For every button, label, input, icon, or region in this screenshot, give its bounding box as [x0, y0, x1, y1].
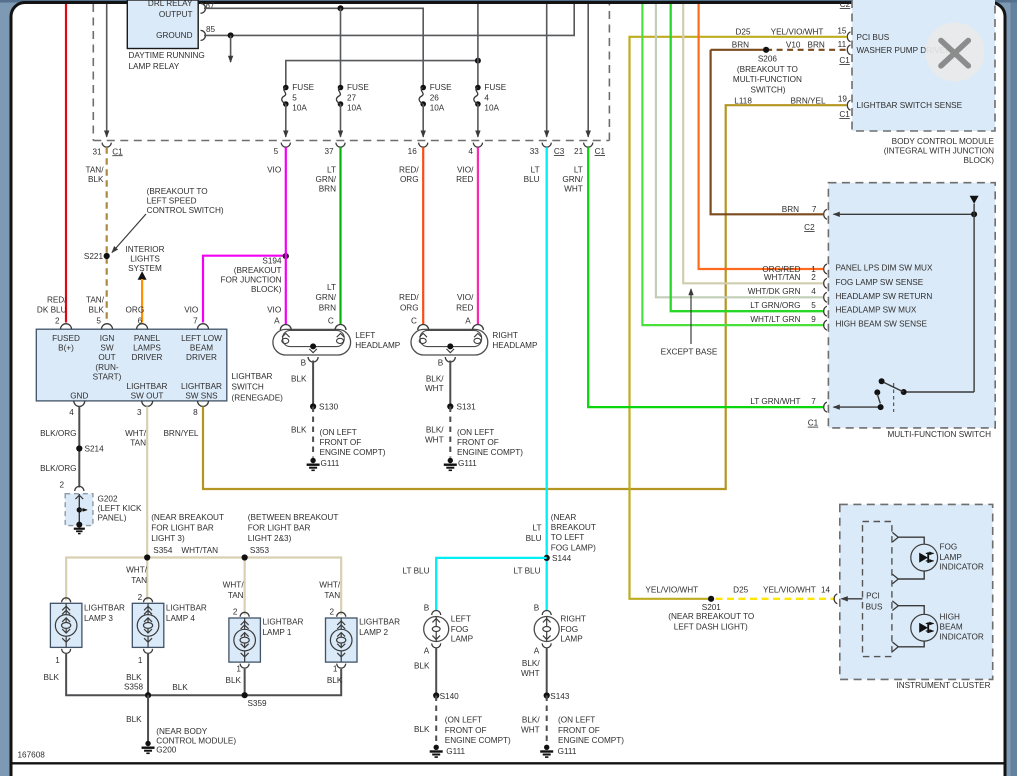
- node S358: [145, 692, 151, 698]
- svg-text:LT: LT: [574, 165, 583, 174]
- svg-text:8: 8: [193, 408, 198, 417]
- lamp LIGHTBAR LAMP 2: [326, 612, 358, 668]
- svg-text:FOG: FOG: [451, 625, 469, 634]
- svg-text:GRN/: GRN/: [316, 175, 337, 184]
- svg-text:RED/: RED/: [399, 293, 419, 302]
- svg-text:BRN/YEL: BRN/YEL: [163, 429, 198, 438]
- svg-text:ORG: ORG: [126, 305, 145, 314]
- svg-text:SWITCH): SWITCH): [750, 86, 785, 95]
- switch S LIGHTBAR SWITCH (RENEGADE): [36, 324, 227, 407]
- node S130: [310, 403, 316, 409]
- svg-text:LEFT SPEED: LEFT SPEED: [147, 197, 197, 206]
- svg-text:BLK/: BLK/: [522, 659, 540, 668]
- svg-text:5: 5: [292, 93, 297, 102]
- svg-text:WHT: WHT: [425, 435, 444, 444]
- svg-text:(NEAR BODY: (NEAR BODY: [156, 727, 207, 736]
- wire TAN/BLK (dashed) pin 31 to lightbar switch pin 5: [106, 147, 108, 322]
- svg-text:1: 1: [138, 656, 143, 665]
- svg-text:BLU: BLU: [526, 534, 542, 543]
- svg-text:S358: S358: [124, 683, 144, 692]
- svg-text:C: C: [328, 317, 334, 326]
- svg-text:2: 2: [811, 273, 816, 282]
- svg-text:S143: S143: [550, 692, 570, 701]
- svg-text:PCI BUS: PCI BUS: [857, 33, 890, 42]
- svg-text:OUTPUT: OUTPUT: [159, 10, 193, 19]
- svg-text:BLK: BLK: [88, 175, 104, 184]
- svg-text:7: 7: [812, 205, 817, 214]
- svg-text:BLOCK): BLOCK): [964, 156, 995, 165]
- wire WHT/TAN bus S354 to S353 and branches: [66, 558, 341, 615]
- ground G111 right headlamp: [444, 458, 457, 471]
- svg-text:YEL/VIO/WHT: YEL/VIO/WHT: [771, 28, 824, 37]
- node S201: [708, 596, 714, 602]
- node S194: [283, 253, 289, 259]
- svg-text:TAN: TAN: [228, 591, 244, 600]
- svg-text:C3: C3: [554, 147, 565, 156]
- svg-text:BLK: BLK: [414, 725, 430, 734]
- svg-text:5: 5: [274, 147, 279, 156]
- svg-text:WHT/: WHT/: [126, 566, 148, 575]
- ground G111 right fog lamp: [540, 745, 553, 758]
- node S214: [76, 445, 82, 451]
- svg-text:LIGHT 2&3): LIGHT 2&3): [248, 534, 292, 543]
- svg-text:A: A: [424, 646, 430, 655]
- svg-text:LIGHTBAR: LIGHTBAR: [84, 604, 125, 613]
- svg-text:WHT/: WHT/: [223, 580, 245, 589]
- svg-text:BLOCK): BLOCK): [251, 285, 282, 294]
- wires PCI BUS to fog lamp indicator: [898, 537, 924, 579]
- svg-text:S354: S354: [153, 546, 173, 555]
- svg-text:DAYTIME RUNNING: DAYTIME RUNNING: [129, 51, 205, 60]
- module MULTI-FUNCTION SWITCH box: [828, 183, 995, 428]
- svg-text:ENGINE COMPT): ENGINE COMPT): [457, 448, 523, 457]
- svg-text:(ON LEFT: (ON LEFT: [445, 716, 482, 725]
- svg-text:GRN/: GRN/: [562, 175, 583, 184]
- svg-text:V10: V10: [786, 41, 801, 50]
- svg-text:PANEL LPS DIM SW MUX: PANEL LPS DIM SW MUX: [836, 264, 933, 273]
- svg-text:BLK/: BLK/: [522, 716, 540, 725]
- ground G202 (LEFT KICK PANEL): [65, 486, 142, 533]
- svg-text:SW OUT: SW OUT: [131, 391, 164, 400]
- svg-text:SW SNS: SW SNS: [185, 391, 218, 400]
- svg-text:A: A: [465, 317, 471, 326]
- svg-text:BLK: BLK: [291, 426, 307, 435]
- svg-text:15: 15: [837, 26, 847, 35]
- svg-text:27: 27: [347, 93, 357, 102]
- svg-text:LEFT: LEFT: [355, 331, 375, 340]
- fuse F4 10A: [474, 83, 507, 137]
- svg-text:LIGHT 3): LIGHT 3): [151, 534, 185, 543]
- close button: [925, 23, 984, 82]
- svg-text:YEL/VIO/WHT: YEL/VIO/WHT: [763, 585, 816, 594]
- svg-text:S194: S194: [262, 257, 282, 266]
- svg-text:G111: G111: [558, 747, 577, 756]
- wire WHT/TAN pin 3 to S354: [146, 406, 148, 557]
- svg-text:1: 1: [236, 664, 241, 673]
- svg-text:BRN/YEL: BRN/YEL: [790, 96, 825, 105]
- svg-text:LT GRN/WHT: LT GRN/WHT: [750, 397, 800, 406]
- svg-text:HIGH BEAM SW SENSE: HIGH BEAM SW SENSE: [836, 320, 928, 329]
- svg-text:FUSE: FUSE: [292, 83, 314, 92]
- svg-text:BRN: BRN: [808, 41, 825, 50]
- PCI BUS output chevrons: [892, 532, 898, 651]
- wire RED/ORG pin 16 to right headlamp pin C: [422, 147, 424, 324]
- wire D25 YEL/VIO/WHT (dashed yellow) S201 to instrument cluster pin 14: [716, 598, 836, 600]
- svg-text:LEFT: LEFT: [451, 615, 471, 624]
- svg-text:LAMP 1: LAMP 1: [263, 628, 292, 637]
- relay K1 DAYTIME RUNNING LAMP RELAY: [127, 0, 204, 71]
- svg-text:4: 4: [811, 287, 816, 296]
- connector pin cups at junction block: [102, 143, 593, 148]
- svg-text:FUSE: FUSE: [484, 83, 506, 92]
- svg-text:LAMP: LAMP: [560, 635, 583, 644]
- wire into connector C1 pin 31: [106, 4, 108, 137]
- svg-text:26: 26: [430, 93, 440, 102]
- svg-text:16: 16: [408, 147, 418, 156]
- svg-text:EXCEPT BASE: EXCEPT BASE: [661, 348, 718, 357]
- svg-text:G202: G202: [98, 494, 118, 503]
- svg-text:LT GRN/ORG: LT GRN/ORG: [750, 301, 800, 310]
- svg-text:(RENEGADE): (RENEGADE): [232, 394, 284, 403]
- svg-text:L118: L118: [734, 96, 752, 105]
- node S143: [544, 692, 550, 698]
- svg-text:BLU: BLU: [524, 175, 540, 184]
- wire BLK/ORG pin 4 to G202: [78, 406, 80, 487]
- svg-text:BLK: BLK: [291, 374, 307, 383]
- svg-text:WHT: WHT: [521, 669, 540, 678]
- svg-text:VIO: VIO: [267, 305, 281, 314]
- svg-text:HEADLAMP: HEADLAMP: [492, 341, 538, 350]
- LED high beam indicator: [911, 614, 938, 641]
- svg-text:FRONT OF: FRONT OF: [457, 438, 499, 447]
- svg-text:FUSE: FUSE: [347, 83, 369, 92]
- svg-text:LIGHTBAR: LIGHTBAR: [359, 617, 400, 626]
- wire LT GRN/ORG to MFS pin 5: [671, 4, 823, 311]
- svg-text:VIO/: VIO/: [457, 293, 474, 302]
- svg-text:9: 9: [811, 315, 816, 324]
- svg-text:BRN: BRN: [319, 303, 336, 312]
- svg-text:INDICATOR: INDICATOR: [940, 632, 984, 641]
- wire from pin 87 to fuses: [204, 8, 423, 87]
- svg-text:(BREAKOUT TO: (BREAKOUT TO: [147, 187, 208, 196]
- svg-text:FRONT OF: FRONT OF: [320, 438, 362, 447]
- svg-text:LT BLU: LT BLU: [403, 566, 430, 575]
- svg-text:LAMP RELAY: LAMP RELAY: [129, 62, 180, 71]
- svg-text:167608: 167608: [18, 751, 46, 760]
- svg-text:LAMP 4: LAMP 4: [166, 614, 195, 623]
- svg-text:2: 2: [55, 316, 60, 325]
- svg-text:HIGH: HIGH: [940, 613, 961, 622]
- svg-text:LIGHTBAR SWITCH SENSE: LIGHTBAR SWITCH SENSE: [857, 101, 963, 110]
- node on 85 wire: [228, 32, 234, 38]
- svg-text:(BREAKOUT: (BREAKOUT: [234, 266, 282, 275]
- svg-text:(LEFT KICK: (LEFT KICK: [98, 504, 143, 513]
- wire into connector C1 pin 21: [587, 4, 589, 137]
- pin 19 bracket on BCM: [847, 100, 850, 110]
- pin number labels under junction block: [92, 147, 605, 156]
- svg-text:BEAM: BEAM: [940, 623, 963, 632]
- svg-text:1: 1: [55, 656, 60, 665]
- svg-text:WHT/TAN: WHT/TAN: [181, 546, 218, 555]
- feed wire linking fuse 5 and fuse 4 columns: [286, 61, 478, 88]
- svg-text:85: 85: [206, 25, 216, 34]
- svg-text:2: 2: [233, 608, 238, 617]
- svg-text:WHT/DK GRN: WHT/DK GRN: [748, 287, 801, 296]
- svg-text:LEFT DASH LIGHT): LEFT DASH LIGHT): [674, 622, 748, 631]
- svg-text:7: 7: [193, 316, 198, 325]
- svg-text:1: 1: [333, 664, 338, 673]
- node on 87 wire feeding fuse 27: [338, 5, 344, 11]
- lamp LEFT HEADLAMP: [273, 325, 351, 363]
- wire LT GRN/WHT pin 21 to MFS pin 7 C1: [588, 147, 823, 407]
- svg-text:FOR JUNCTION: FOR JUNCTION: [221, 276, 282, 285]
- svg-text:BRN: BRN: [732, 41, 749, 50]
- svg-text:S130: S130: [319, 403, 339, 412]
- ground G111 left headlamp: [307, 458, 320, 471]
- svg-text:(BREAKOUT TO: (BREAKOUT TO: [737, 65, 798, 74]
- svg-text:(NEAR BREAKOUT TO: (NEAR BREAKOUT TO: [668, 612, 754, 621]
- wire ORG to lightbar switch pin 6: [141, 279, 143, 323]
- svg-text:S214: S214: [85, 445, 105, 454]
- svg-text:FOR LIGHT BAR: FOR LIGHT BAR: [151, 524, 214, 533]
- wire BLK/WHT right fog pin A to S143: [546, 648, 548, 696]
- pin 11 bracket on BCM: [847, 45, 850, 55]
- wire labels above lightbar switch: [37, 296, 281, 315]
- second row colour labels above headlamps: [316, 283, 475, 312]
- svg-text:MULTI-FUNCTION: MULTI-FUNCTION: [733, 75, 802, 84]
- svg-text:FOG LAMP): FOG LAMP): [551, 543, 596, 552]
- svg-text:RED/: RED/: [47, 296, 67, 305]
- svg-text:VIO: VIO: [267, 165, 281, 174]
- svg-text:WHT/: WHT/: [319, 580, 341, 589]
- svg-text:GROUND: GROUND: [156, 31, 192, 40]
- wire BLK left headlamp pin B to S130: [312, 361, 314, 407]
- svg-text:B: B: [301, 358, 307, 367]
- svg-text:4: 4: [69, 408, 74, 417]
- svg-text:37: 37: [324, 147, 334, 156]
- svg-text:WHT: WHT: [425, 384, 444, 393]
- svg-text:CONTROL MODULE): CONTROL MODULE): [156, 736, 236, 745]
- svg-text:ENGINE COMPT): ENGINE COMPT): [445, 736, 511, 745]
- svg-text:SYSTEM: SYSTEM: [128, 264, 162, 273]
- svg-text:LIGHTBAR: LIGHTBAR: [232, 372, 273, 381]
- wire VIO/RED pin 4 to right headlamp pin A: [477, 147, 479, 324]
- svg-text:RIGHT: RIGHT: [492, 331, 517, 340]
- svg-text:S359: S359: [247, 699, 267, 708]
- svg-text:TO LEFT: TO LEFT: [551, 533, 585, 542]
- svg-text:CONTROL SWITCH): CONTROL SWITCH): [147, 206, 224, 215]
- svg-text:WHT/TAN: WHT/TAN: [764, 273, 801, 282]
- svg-text:LEFT LOW: LEFT LOW: [181, 334, 222, 343]
- diagram bottom border: [13, 762, 1004, 764]
- svg-text:14: 14: [821, 585, 831, 594]
- svg-text:DK BLU: DK BLU: [37, 305, 67, 314]
- svg-text:LAMP 2: LAMP 2: [359, 628, 388, 637]
- svg-text:B: B: [438, 358, 444, 367]
- module BODY CONTROL MODULE box: [852, 0, 995, 131]
- svg-text:DRIVER: DRIVER: [132, 353, 163, 362]
- svg-text:START): START): [93, 372, 122, 381]
- svg-text:C1: C1: [595, 147, 606, 156]
- svg-text:S201: S201: [702, 603, 722, 612]
- wire VIO pin 5 to left headlamp pin A: [285, 147, 287, 324]
- svg-text:DRL RELAY: DRL RELAY: [148, 0, 193, 8]
- fuse F27 10A: [336, 83, 369, 137]
- pin 14 bracket on instrument cluster: [834, 594, 837, 604]
- svg-text:B: B: [534, 604, 540, 613]
- stub arrow from 85 wire: [230, 35, 232, 62]
- svg-text:BREAKOUT: BREAKOUT: [551, 523, 596, 532]
- svg-text:BLK: BLK: [414, 662, 430, 671]
- svg-text:B: B: [424, 604, 430, 613]
- svg-text:TAN: TAN: [131, 576, 147, 585]
- junction block boundary (dashed): [93, 4, 609, 141]
- svg-text:11: 11: [838, 40, 847, 49]
- LED fog lamp indicator: [911, 544, 938, 571]
- svg-text:FOG: FOG: [940, 543, 958, 552]
- wire BLK/WHT right headlamp pin B to S131: [449, 361, 451, 407]
- wire junction to fuse 27: [340, 8, 342, 87]
- fuse F26 10A: [419, 83, 452, 137]
- svg-text:LIGHTBAR: LIGHTBAR: [181, 382, 222, 391]
- wire YEL/VIO/WHT D25 from BCM pin 15 down to S201: [630, 37, 848, 599]
- svg-text:5: 5: [96, 316, 101, 325]
- wire BLK/WHT (dashed) S131 to G111: [449, 407, 451, 458]
- svg-text:BLK/: BLK/: [426, 426, 444, 435]
- lamp LEFT FOG LAMP: [424, 611, 449, 648]
- svg-text:PANEL): PANEL): [98, 514, 127, 523]
- svg-text:ENGINE COMPT): ENGINE COMPT): [558, 736, 624, 745]
- svg-text:5: 5: [811, 301, 816, 310]
- svg-text:BLK/ORG: BLK/ORG: [40, 464, 76, 473]
- pin 85 of relay K1: [201, 30, 206, 40]
- svg-text:RED: RED: [456, 175, 473, 184]
- svg-text:10A: 10A: [430, 104, 445, 113]
- svg-text:BLK: BLK: [226, 676, 242, 685]
- svg-text:BLK/: BLK/: [426, 374, 444, 383]
- svg-text:BLK: BLK: [89, 305, 105, 314]
- svg-text:S140: S140: [440, 692, 460, 701]
- svg-text:IGN: IGN: [100, 334, 115, 343]
- svg-text:VIO/: VIO/: [457, 165, 474, 174]
- wire BLK left fog pin A to S140: [435, 648, 437, 696]
- feed wire to fuse 4 from off top: [477, 4, 479, 88]
- fuse F5 10A: [282, 83, 315, 137]
- svg-text:FUSE: FUSE: [430, 83, 452, 92]
- svg-text:BLK/ORG: BLK/ORG: [40, 429, 76, 438]
- lamp RIGHT FOG LAMP: [534, 611, 559, 648]
- node S353: [242, 554, 248, 560]
- node S354: [144, 554, 150, 560]
- svg-text:HEADLAMP: HEADLAMP: [355, 341, 401, 350]
- svg-text:BLK: BLK: [44, 673, 60, 682]
- svg-text:BRN: BRN: [319, 185, 336, 194]
- svg-text:G111: G111: [321, 459, 340, 468]
- node S206: [763, 47, 769, 53]
- svg-text:LIGHTBAR: LIGHTBAR: [166, 604, 207, 613]
- svg-text:YEL/VIO/WHT: YEL/VIO/WHT: [645, 585, 698, 594]
- svg-text:3: 3: [137, 408, 142, 417]
- svg-text:ORG: ORG: [400, 175, 419, 184]
- svg-text:SWITCH: SWITCH: [232, 383, 264, 392]
- svg-text:BLK: BLK: [172, 683, 188, 692]
- svg-text:LAMPS: LAMPS: [133, 344, 161, 353]
- svg-text:19: 19: [838, 95, 848, 104]
- svg-text:FOG LAMP SW SENSE: FOG LAMP SW SENSE: [836, 278, 924, 287]
- svg-text:LAMP 3: LAMP 3: [84, 614, 113, 623]
- svg-text:TAN: TAN: [324, 591, 340, 600]
- svg-text:10A: 10A: [484, 104, 499, 113]
- svg-text:LT: LT: [531, 165, 540, 174]
- wire BLK (dashed) S140 to G111: [435, 696, 437, 745]
- svg-text:2: 2: [330, 608, 335, 617]
- lamp RIGHT HEADLAMP: [411, 325, 488, 363]
- wire WHT/TAN to MFS pin 2: [683, 4, 823, 283]
- svg-text:RED: RED: [456, 303, 473, 312]
- ground G111 left fog lamp: [430, 745, 443, 758]
- svg-text:VIO: VIO: [184, 305, 198, 314]
- wire BRN solid to S206: [711, 49, 767, 51]
- MFS pin wire labels: [748, 265, 801, 406]
- svg-text:(ON LEFT: (ON LEFT: [457, 428, 494, 437]
- svg-text:LIGHTS: LIGHTS: [130, 255, 160, 264]
- interior lights system arrow: [125, 245, 164, 280]
- wire BLK S358 to G200: [147, 695, 149, 741]
- node S221: [104, 253, 110, 259]
- wire BLK ground bus for lightbar lamps: [66, 654, 341, 695]
- wire BLK/WHT (dashed) S143 to G111: [546, 696, 548, 745]
- svg-text:TAN/: TAN/: [85, 165, 104, 174]
- svg-text:C1: C1: [839, 56, 850, 65]
- svg-text:PANEL: PANEL: [134, 334, 161, 343]
- wire LT BLU pin 33 down to S144 and right fog lamp: [546, 147, 548, 611]
- pin 15 bracket on BCM: [847, 32, 850, 42]
- svg-text:PCI: PCI: [866, 591, 880, 600]
- svg-text:C: C: [411, 317, 417, 326]
- svg-text:LT BLU: LT BLU: [514, 566, 541, 575]
- svg-text:G111: G111: [446, 747, 465, 756]
- svg-text:BEAM: BEAM: [190, 344, 213, 353]
- wire pin 14 into PCI BUS with arrow: [842, 598, 863, 600]
- lamp LIGHTBAR LAMP 1: [229, 612, 261, 668]
- svg-text:LT: LT: [327, 283, 336, 292]
- svg-text:31: 31: [92, 147, 102, 156]
- svg-text:S221: S221: [84, 252, 104, 261]
- svg-text:INDICATOR: INDICATOR: [940, 563, 984, 572]
- wire from pin 85 (ground) running right and off top: [204, 4, 574, 35]
- svg-text:(RUN-: (RUN-: [95, 363, 118, 372]
- svg-text:DRIVER: DRIVER: [186, 353, 217, 362]
- svg-text:GND: GND: [70, 391, 88, 400]
- node S359: [242, 692, 248, 698]
- svg-text:S353: S353: [250, 546, 270, 555]
- svg-text:G200: G200: [156, 746, 176, 755]
- lamp LIGHTBAR LAMP 4: [132, 598, 164, 654]
- wires PCI BUS to high beam indicator: [898, 606, 924, 647]
- lamp LIGHTBAR LAMP 3: [50, 598, 82, 654]
- svg-text:C2: C2: [840, 0, 851, 9]
- svg-text:HEADLAMP SW RETURN: HEADLAMP SW RETURN: [836, 292, 933, 301]
- svg-text:OUT: OUT: [98, 353, 115, 362]
- node S144: [544, 555, 550, 561]
- svg-text:A: A: [274, 317, 280, 326]
- wire LT BLU branch to left fog lamp: [436, 558, 547, 611]
- module INSTRUMENT CLUSTER box: [840, 504, 993, 679]
- note EXCEPT BASE with arrow: [661, 289, 718, 357]
- wire ORG/RED to MFS pin 1: [699, 4, 823, 269]
- svg-text:WHT: WHT: [521, 726, 540, 735]
- svg-text:ENGINE COMPT): ENGINE COMPT): [320, 448, 386, 457]
